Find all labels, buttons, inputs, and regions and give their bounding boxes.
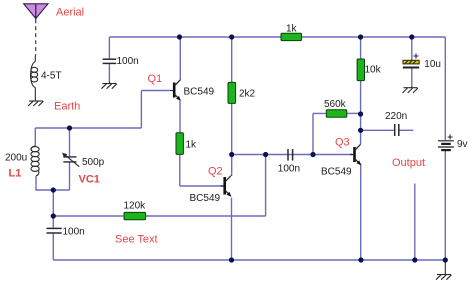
ground earth symbol [28,101,43,106]
wire 220n left lead [361,129,394,131]
svg-text:1k: 1k [286,24,298,35]
inductor 4-5T aerial coupling coil [31,56,38,102]
svg-text:2k2: 2k2 [239,89,256,100]
svg-text:Output: Output [392,157,425,169]
wire VC1 top stub [69,128,71,156]
svg-text:Aerial: Aerial [56,7,84,19]
wire output terminal [414,184,416,261]
wire tank to 120k node [52,190,54,216]
wire battery negative to ground rail [444,151,446,260]
svg-text:100n: 100n [63,227,85,238]
ground under decoupling cap [101,84,116,89]
wire VC1 bottom stub [69,162,71,190]
svg-text:220n: 220n [385,111,407,122]
junction node ground rail battery [443,257,448,262]
svg-text:BC549: BC549 [321,167,352,178]
wire 220n right lead open end [399,129,413,131]
svg-text:L1: L1 [9,168,22,180]
wire Q2 emitter to ground rail [231,198,233,260]
wire 560k left lead and riser [313,113,326,154]
svg-text:BC549: BC549 [190,193,221,204]
svg-text:BC549: BC549 [184,87,215,98]
wire battery positive from rail [444,37,446,140]
junction node ground rail Q2 [229,257,234,262]
wire tank bottom rail [35,189,69,191]
wire 10u cap branch upper [411,37,413,60]
svg-text:1k: 1k [186,140,198,151]
transistor Q2 [221,174,232,196]
capacitor C 100n interstage [288,149,293,161]
junction node ground rail output [412,257,417,262]
wire 10k top branch [360,37,362,59]
junction node tank bottom [51,187,56,192]
svg-text:120k: 120k [124,201,147,212]
wire Q1 collector to rail [179,37,181,80]
wire decoupling cap branch lower [108,64,110,81]
svg-text:560k: 560k [324,99,347,110]
wire bottom ground rail [53,259,445,261]
antenna aerial symbol [24,4,48,20]
wire tank top rail to Q1 base [35,91,170,129]
svg-text:9v: 9v [457,139,468,150]
variable capacitor VC1 [63,157,76,162]
svg-text:100n: 100n [278,164,300,175]
junction node Q2 collector rail [229,152,234,157]
svg-text:500p: 500p [82,157,105,168]
wire 10u cap branch lower [411,68,413,86]
wire 10k bottom to Q3 collector [360,81,362,145]
resistor 10k [357,59,364,81]
wire aerial dashed lead [35,20,37,56]
junction node feedback rail [263,152,268,157]
battery 9V [438,135,454,151]
wire Q3 emitter to ground rail [360,164,362,260]
ground bottom right [444,260,446,275]
wire 120k left lead [53,215,123,217]
wire 1k to Q2 base [180,155,224,186]
resistor 1k emitter Q1 [176,133,183,155]
svg-text:Q1: Q1 [148,73,163,85]
junction node top rail Q1 [177,34,182,39]
transistor Q3 [350,144,361,165]
junction node 120k left [51,213,56,218]
junction node 220n left [358,128,363,133]
wire 2k2 top branch [231,37,233,82]
junction node top rail 2k2 [229,34,234,39]
svg-text:100n: 100n [117,56,139,67]
svg-text:4-5T: 4-5T [41,71,62,82]
capacitor 220n [395,124,399,136]
resistor 120k [124,212,146,219]
junction node Q3 base rail [310,152,315,157]
junction node tank top VC1 [67,125,72,130]
wire 120k right lead to feedback riser [146,155,266,217]
wire decoupling cap branch upper [108,37,110,59]
capacitor C 100n decoupling top-left [103,59,117,63]
wire L1 top stub [34,128,36,146]
svg-text:See Text: See Text [115,234,158,246]
wire top supply rail right segment [302,36,446,38]
junction node 560k right [358,111,363,116]
svg-text:Q2: Q2 [208,166,223,178]
junction node ground rail Q3 [358,257,363,262]
svg-text:Earth: Earth [54,101,80,113]
inductor L1 [31,146,39,176]
wire interstage rail Q2 collector to Q3 base [232,154,353,156]
wire top supply rail left segment [109,36,281,38]
wire 120k node to bottom 100n [52,216,54,228]
transistor Q1 [170,80,181,101]
wire L1 bottom stub [35,176,37,190]
wire Q1 emitter to 1k [179,101,181,133]
ground under 10u [411,86,413,88]
svg-text:VC1: VC1 [79,174,100,186]
wire bottom 100n to ground rail [52,234,54,260]
svg-text:Q3: Q3 [335,137,350,149]
capacitor C 100n bottom-left [47,228,62,233]
resistor 560k [326,110,347,117]
svg-text:10u: 10u [424,59,441,70]
junction node top rail 10u [409,34,414,39]
wire 2k2 bottom to Q2 collector [231,103,233,173]
wire 560k right lead [347,112,361,114]
svg-text:10k: 10k [365,65,382,76]
resistor 2k2 [228,82,236,103]
capacitor 10u electrolytic [403,54,419,68]
resistor 1k top rail [281,33,302,40]
svg-text:200u: 200u [5,153,27,164]
junction node top rail 10k [358,34,363,39]
